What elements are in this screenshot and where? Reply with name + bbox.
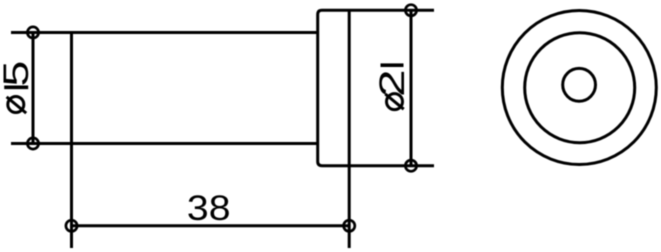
svg-text:38: 38 xyxy=(187,188,231,228)
ø21 dimension line xyxy=(410,10,413,165)
ø15 dimension terminator circle bottom xyxy=(27,138,38,149)
ø21 label diameter symbol circle xyxy=(387,94,403,110)
svg-text:2: 2 xyxy=(373,69,412,97)
ø15 label diameter symbol slash xyxy=(7,97,27,113)
38 dimension terminator circle left xyxy=(66,220,77,231)
flange right edge xyxy=(348,10,351,165)
ø15 dimension label (rotated), diameter symbol drawn as circle+slash xyxy=(0,61,36,113)
ø21 dimension terminator circle top xyxy=(405,5,416,16)
cylinder body bottom edge + ø15 bottom extension line xyxy=(11,142,318,145)
front view outer circle (ø21 flange) xyxy=(502,11,656,165)
svg-text:5: 5 xyxy=(0,61,36,87)
cylinder body left edge xyxy=(70,33,73,144)
38 dimension left extension line xyxy=(70,144,73,249)
ø21 label diameter symbol slash xyxy=(385,94,403,109)
flange outline (left edge, top and bottom edges extending right as ø21 extension lines) xyxy=(318,10,434,165)
ø15 label diameter symbol circle xyxy=(8,97,24,113)
38 dimension terminator circle right xyxy=(344,220,355,231)
front view inner circle (mounting hole) xyxy=(563,68,596,101)
ø21 dimension label (rotated), diameter symbol drawn as circle+slash xyxy=(373,63,412,109)
38 dimension right extension line xyxy=(348,166,351,248)
ø15 dimension terminator circle top xyxy=(27,27,38,38)
cylinder body top edge + ø15 top extension line xyxy=(11,31,318,34)
38 dimension line xyxy=(72,224,350,227)
ø21 dimension terminator circle bottom xyxy=(405,160,416,171)
front view middle circle (ø15 post) xyxy=(525,33,635,143)
ø21 label digit 1 (plain bar) xyxy=(381,63,404,67)
ø15 label digit 1 (plain bar) xyxy=(4,86,28,90)
ø15 dimension line xyxy=(32,33,35,144)
